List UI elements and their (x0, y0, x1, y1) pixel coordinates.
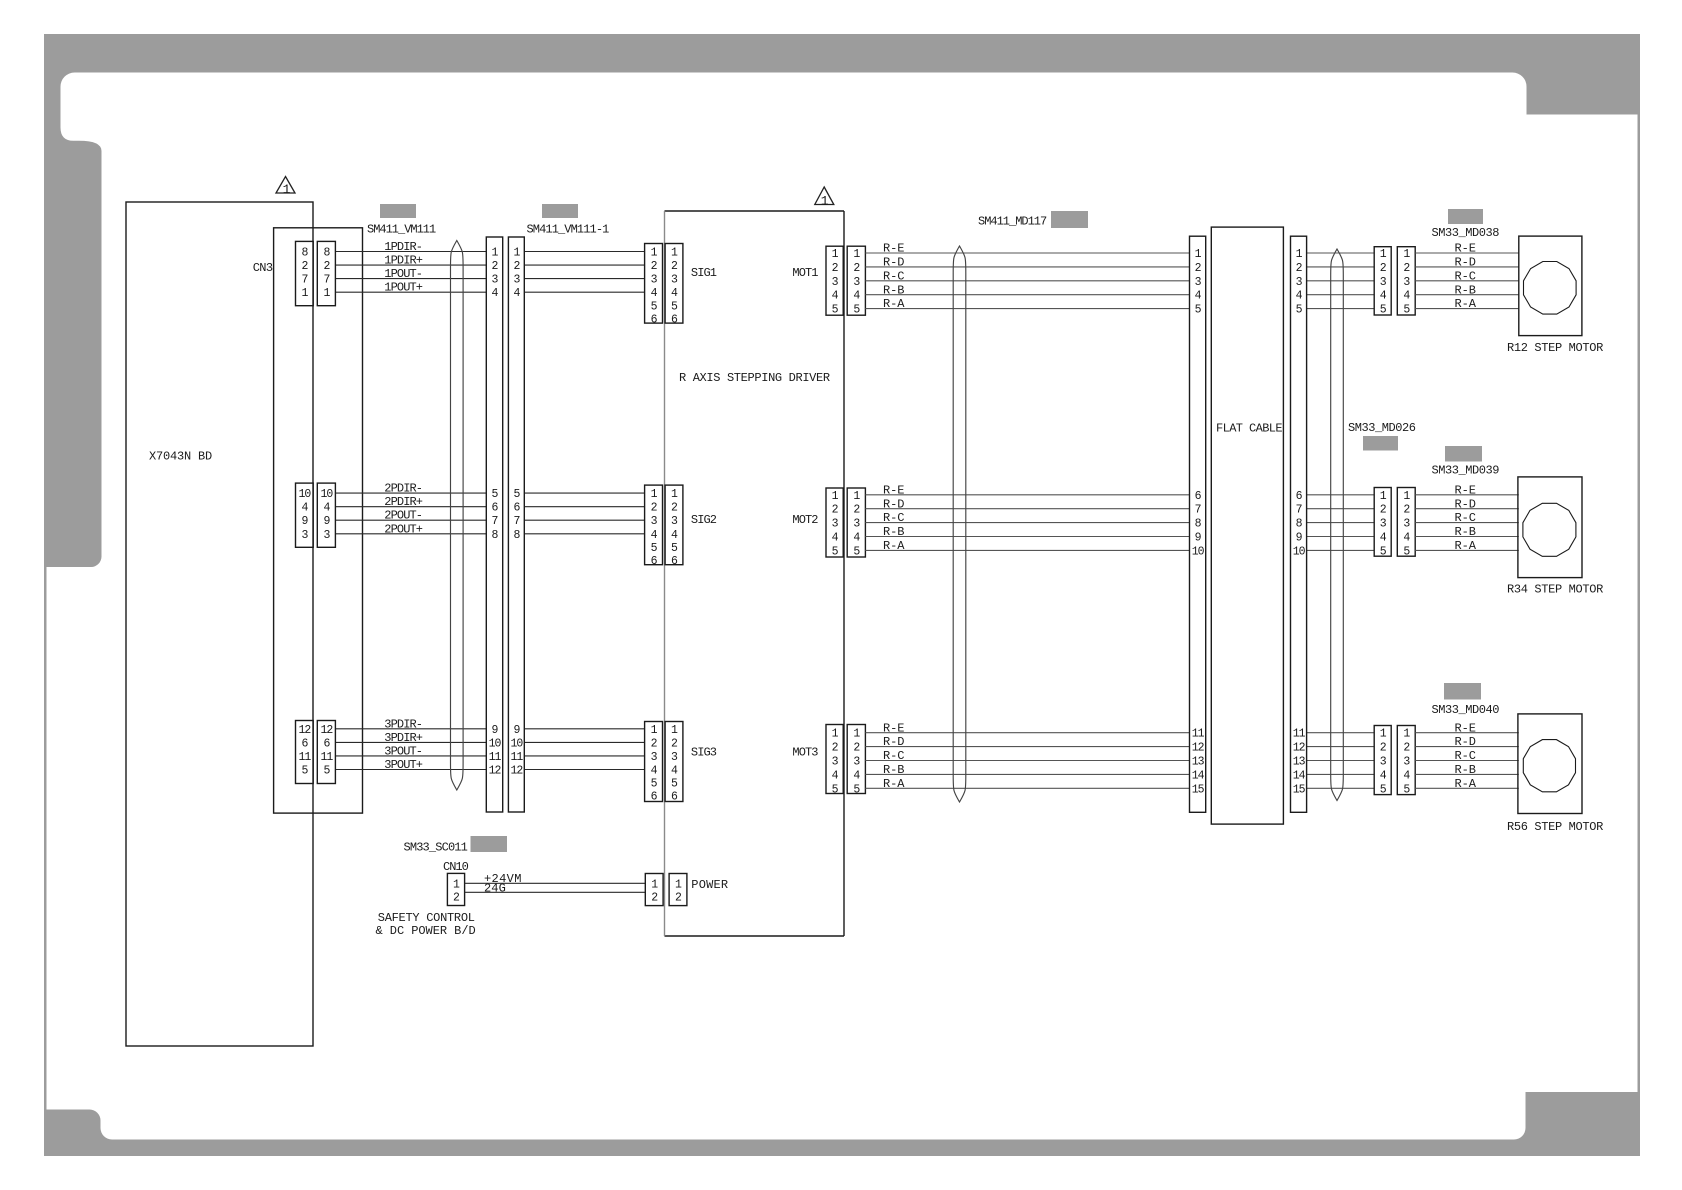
svg-text:5: 5 (651, 778, 658, 791)
svg-text:1PDIR-: 1PDIR- (384, 240, 422, 254)
svg-text:4: 4 (323, 502, 330, 515)
svg-text:R-D: R-D (1455, 497, 1476, 511)
svg-text:5: 5 (671, 300, 678, 313)
svg-text:MOT1: MOT1 (792, 266, 818, 280)
connector SIG2 box A (645, 485, 663, 568)
svg-text:1: 1 (301, 287, 308, 300)
wire R-C to step motor 1 (1415, 269, 1519, 283)
wire R-E to step motor 3 (1415, 721, 1519, 735)
svg-text:9: 9 (492, 724, 499, 737)
svg-text:1: 1 (651, 879, 658, 892)
svg-text:1: 1 (675, 879, 682, 892)
svg-text:1: 1 (513, 247, 520, 260)
svg-text:R-E: R-E (883, 242, 904, 256)
svg-text:5: 5 (832, 783, 839, 796)
svg-text:2: 2 (671, 737, 678, 750)
svg-text:24G: 24G (484, 881, 506, 895)
svg-text:4: 4 (832, 532, 839, 545)
svg-text:3: 3 (671, 515, 678, 528)
svg-text:3: 3 (671, 274, 678, 287)
svg-text:SM411_MD117: SM411_MD117 (978, 215, 1047, 229)
svg-text:7: 7 (323, 274, 329, 287)
label POWER (691, 878, 728, 892)
svg-text:2: 2 (1195, 262, 1202, 275)
svg-text:15: 15 (1192, 783, 1205, 796)
svg-text:11: 11 (510, 751, 523, 764)
svg-text:SIG2: SIG2 (691, 513, 717, 527)
svg-text:R-E: R-E (1455, 721, 1476, 735)
svg-text:8: 8 (513, 529, 520, 542)
svg-text:1: 1 (492, 247, 499, 260)
svg-text:2: 2 (301, 260, 308, 273)
svg-text:3: 3 (651, 274, 658, 287)
svg-text:2: 2 (323, 260, 330, 273)
wire 24G (465, 881, 646, 895)
label SIG1 (691, 266, 717, 280)
svg-text:3POUT+: 3POUT+ (384, 758, 423, 772)
connector SIG1 box A (645, 244, 663, 327)
svg-text:1: 1 (832, 248, 839, 261)
svg-text:8: 8 (1195, 518, 1202, 531)
svg-text:2: 2 (1380, 262, 1387, 275)
connector column flat cable left (1190, 236, 1206, 812)
svg-text:1: 1 (821, 193, 829, 208)
svg-text:10: 10 (298, 488, 311, 501)
svg-text:R-E: R-E (1455, 242, 1476, 256)
svg-text:2: 2 (853, 262, 860, 275)
label SIG2 (691, 513, 717, 527)
svg-text:11: 11 (1192, 728, 1205, 741)
svg-text:3: 3 (651, 515, 658, 528)
svg-text:5: 5 (513, 488, 520, 501)
svg-text:3: 3 (1403, 756, 1410, 769)
svg-text:3: 3 (323, 529, 330, 542)
wire 2POUT- (335, 509, 486, 523)
svg-text:13: 13 (1192, 756, 1205, 769)
svg-text:4: 4 (671, 529, 678, 542)
svg-text:1: 1 (853, 490, 860, 503)
svg-text:2: 2 (832, 504, 839, 517)
svg-text:5: 5 (651, 542, 658, 555)
svg-text:4: 4 (301, 502, 308, 515)
svg-text:6: 6 (492, 502, 499, 515)
svg-text:12: 12 (510, 765, 523, 778)
svg-text:R-D: R-D (1455, 256, 1476, 270)
svg-text:R-B: R-B (1455, 525, 1476, 539)
wire R-B MOT3 to flat cable (865, 763, 1189, 777)
svg-text:1: 1 (832, 490, 839, 503)
svg-text:R-D: R-D (1455, 735, 1476, 749)
svg-text:3: 3 (651, 751, 658, 764)
svg-text:SIG1: SIG1 (691, 266, 717, 280)
connector CN3 pins group 2 box A (296, 483, 314, 547)
svg-text:4: 4 (832, 290, 839, 303)
connector MOT2 box B (847, 488, 865, 558)
svg-text:1: 1 (1403, 728, 1410, 741)
driver box R AXIS STEPPING DRIVER (665, 211, 845, 936)
cable bundle symbol SM411_MD117 (953, 246, 966, 802)
svg-text:X7043N BD: X7043N BD (149, 450, 212, 464)
wire 2PDIR- (335, 482, 486, 496)
svg-text:FLAT CABLE: FLAT CABLE (1216, 422, 1282, 436)
svg-text:4: 4 (1380, 532, 1387, 545)
svg-text:3: 3 (853, 518, 860, 531)
wire R-E MOT1 to flat cable (865, 242, 1189, 256)
wire bundle flat cable to SM33 connector group 3 (1307, 733, 1375, 789)
svg-text:R-C: R-C (883, 749, 904, 763)
svg-text:R-C: R-C (883, 511, 904, 525)
svg-text:R-B: R-B (883, 525, 904, 539)
connector POWER box B (669, 874, 687, 906)
cable label SM33_MD040 (1432, 703, 1500, 717)
svg-text:3PDIR-: 3PDIR- (384, 717, 422, 731)
wire 1POUT- (335, 267, 486, 281)
tag SM411_VM111-1 (542, 204, 578, 218)
svg-text:11: 11 (489, 751, 502, 764)
tag SM33_MD039 (1445, 446, 1482, 462)
svg-text:2PDIR-: 2PDIR- (384, 482, 422, 496)
svg-text:2: 2 (1403, 504, 1410, 517)
svg-text:14: 14 (1192, 769, 1205, 782)
svg-text:R-D: R-D (883, 497, 904, 511)
svg-text:7: 7 (1296, 504, 1302, 517)
svg-text:13: 13 (1293, 756, 1306, 769)
svg-text:3: 3 (853, 276, 860, 289)
svg-text:1: 1 (1380, 248, 1387, 261)
cable label SM411_VM111 (367, 223, 436, 237)
svg-text:2: 2 (671, 502, 678, 515)
svg-text:SM33_MD026: SM33_MD026 (1348, 421, 1416, 435)
connector SM33_MD motor group 1 box B (1397, 247, 1415, 317)
connector MOT3 box B (847, 725, 865, 797)
label MOT1 (792, 266, 818, 280)
svg-text:MOT3: MOT3 (792, 746, 818, 760)
svg-text:POWER: POWER (691, 878, 728, 892)
svg-text:7: 7 (301, 274, 307, 287)
svg-text:R-A: R-A (883, 777, 905, 791)
connector SM33_MD motor group 2 box B (1397, 488, 1415, 559)
svg-text:11: 11 (320, 751, 333, 764)
wire 2POUT+ (335, 522, 486, 536)
svg-text:3: 3 (832, 518, 839, 531)
svg-text:1: 1 (323, 287, 330, 300)
svg-text:3: 3 (832, 276, 839, 289)
svg-text:2POUT-: 2POUT- (384, 509, 422, 523)
svg-text:3: 3 (853, 756, 860, 769)
wire 3POUT- (335, 744, 486, 758)
svg-text:5: 5 (853, 783, 860, 796)
svg-text:R-A: R-A (1455, 539, 1477, 553)
connector MOT3 box A (826, 725, 843, 797)
warning triangle 1 (276, 177, 295, 197)
wire R-D MOT2 to flat cable (865, 497, 1189, 511)
svg-text:1: 1 (1296, 248, 1303, 261)
svg-text:3: 3 (1403, 518, 1410, 531)
cable label SM411_VM111-1 (527, 223, 610, 237)
warning triangle 2 (815, 187, 834, 208)
svg-text:4: 4 (1403, 532, 1410, 545)
svg-text:1: 1 (832, 728, 839, 741)
svg-text:R-A: R-A (1455, 297, 1477, 311)
svg-text:R-A: R-A (1455, 777, 1477, 791)
svg-text:SM33_MD040: SM33_MD040 (1432, 703, 1500, 717)
svg-text:R-B: R-B (883, 763, 904, 777)
connector SIG1 box B (665, 244, 683, 327)
svg-text:12: 12 (1192, 742, 1205, 755)
svg-text:12: 12 (298, 724, 311, 737)
svg-text:14: 14 (1293, 769, 1306, 782)
connector SIG2 box B (665, 485, 683, 568)
svg-text:CN3: CN3 (253, 261, 273, 275)
svg-text:5: 5 (1195, 304, 1202, 317)
svg-text:4: 4 (1296, 290, 1303, 303)
wire bundle flat cable to SM33 connector group 1 (1307, 253, 1375, 309)
svg-text:2: 2 (651, 737, 658, 750)
wire R-C to step motor 2 (1415, 511, 1519, 525)
svg-text:SIG3: SIG3 (691, 746, 717, 760)
svg-text:2: 2 (853, 742, 860, 755)
svg-text:4: 4 (671, 765, 678, 778)
svg-text:1: 1 (1380, 490, 1387, 503)
wire R-E to step motor 2 (1415, 483, 1519, 497)
wire R-B MOT2 to flat cable (865, 525, 1189, 539)
connector SM33_MD motor group 2 box A (1374, 488, 1391, 559)
svg-text:11: 11 (1293, 728, 1306, 741)
svg-text:9: 9 (1195, 532, 1202, 545)
svg-text:6: 6 (301, 737, 308, 750)
wire R-A MOT2 to flat cable (865, 539, 1189, 553)
connector POWER box A (645, 874, 663, 906)
svg-text:4: 4 (1195, 290, 1202, 303)
svg-text:MOT2: MOT2 (792, 513, 818, 527)
svg-text:3POUT-: 3POUT- (384, 744, 422, 758)
wire bundle SM411_VM111-1 group 1 (524, 252, 644, 293)
wire R-C MOT3 to flat cable (865, 749, 1189, 763)
svg-text:R-C: R-C (883, 269, 904, 283)
wire R-A MOT1 to flat cable (865, 297, 1189, 311)
svg-text:SM33_MD038: SM33_MD038 (1432, 226, 1500, 240)
connector CN3 pins group 3 box B (317, 721, 335, 784)
wire bundle SM411_VM111-1 group 3 (524, 729, 644, 770)
svg-text:1PDIR+: 1PDIR+ (384, 254, 423, 268)
svg-text:10: 10 (1293, 545, 1306, 558)
svg-text:5: 5 (671, 542, 678, 555)
connector MOT1 box A (826, 246, 843, 316)
svg-text:7: 7 (492, 515, 498, 528)
svg-text:4: 4 (651, 765, 658, 778)
connector SIG3 box A (645, 722, 663, 804)
svg-text:2: 2 (832, 742, 839, 755)
svg-text:9: 9 (1296, 532, 1303, 545)
svg-text:3: 3 (1380, 756, 1387, 769)
svg-text:3: 3 (492, 274, 499, 287)
wire R-D MOT3 to flat cable (865, 735, 1189, 749)
wire R-B to step motor 3 (1415, 763, 1519, 777)
svg-text:8: 8 (301, 247, 308, 260)
svg-text:2: 2 (1380, 504, 1387, 517)
svg-text:3: 3 (832, 756, 839, 769)
svg-text:SM33_SC011: SM33_SC011 (404, 841, 468, 855)
tag SM33_MD026 (1363, 436, 1398, 451)
svg-text:3: 3 (671, 751, 678, 764)
connector column SM411_VM111 side A (486, 237, 502, 812)
svg-text:2: 2 (651, 260, 658, 273)
svg-text:2: 2 (671, 260, 678, 273)
svg-text:R-D: R-D (883, 256, 904, 270)
svg-text:6: 6 (1296, 490, 1303, 503)
svg-text:2: 2 (513, 260, 520, 273)
wire 1POUT+ (335, 281, 486, 295)
svg-text:2PDIR+: 2PDIR+ (384, 495, 423, 509)
svg-text:5: 5 (1296, 304, 1303, 317)
svg-text:2: 2 (1403, 742, 1410, 755)
connector column SM411_VM111 side B (508, 237, 524, 812)
svg-text:4: 4 (853, 532, 860, 545)
svg-text:4: 4 (853, 769, 860, 782)
svg-text:3: 3 (1380, 518, 1387, 531)
svg-text:R-C: R-C (1455, 511, 1476, 525)
wire R-A to step motor 3 (1415, 777, 1519, 791)
label CN3 (253, 261, 273, 275)
svg-text:1POUT+: 1POUT+ (384, 281, 423, 295)
cable label SM411_MD117 (978, 215, 1047, 229)
svg-text:3: 3 (1403, 276, 1410, 289)
cable label SM33_MD038 (1432, 226, 1500, 240)
svg-text:8: 8 (492, 529, 499, 542)
tag SM33_SC011 (471, 836, 508, 852)
svg-text:4: 4 (853, 290, 860, 303)
svg-text:1POUT-: 1POUT- (384, 267, 422, 281)
connector CN3 pins group 3 box A (296, 721, 314, 784)
svg-text:R-A: R-A (883, 539, 905, 553)
svg-text:5: 5 (301, 765, 308, 778)
connector SM33_MD motor group 1 box A (1374, 247, 1391, 317)
wire bundle SM411_VM111-1 group 2 (524, 493, 644, 534)
wire R-E MOT2 to flat cable (865, 483, 1189, 497)
connector MOT1 box B (847, 246, 865, 316)
svg-text:4: 4 (1380, 290, 1387, 303)
wire 1PDIR- (335, 240, 486, 254)
step motor R56 (1507, 714, 1603, 834)
board X7043N BD (126, 202, 313, 1046)
svg-text:1: 1 (853, 728, 860, 741)
connector CN3 pins group 1 box A (296, 241, 314, 305)
label MOT2 (792, 513, 818, 527)
label SAFETY CONTROL & DC POWER B/D (376, 911, 476, 938)
svg-text:R-E: R-E (1455, 483, 1476, 497)
svg-text:5: 5 (651, 300, 658, 313)
wire bundle flat cable to SM33 connector group 2 (1307, 495, 1375, 551)
wire R-D to step motor 3 (1415, 735, 1519, 749)
connector SM33_MD motor group 3 box A (1374, 726, 1391, 797)
svg-text:R12 STEP MOTOR: R12 STEP MOTOR (1507, 341, 1603, 355)
tag SM411_MD117 (1051, 211, 1088, 228)
svg-text:3: 3 (1296, 276, 1303, 289)
svg-text:R AXIS STEPPING DRIVER: R AXIS STEPPING DRIVER (679, 371, 830, 385)
wire R-C MOT2 to flat cable (865, 511, 1189, 525)
svg-text:1: 1 (283, 182, 291, 197)
svg-text:SM33_MD039: SM33_MD039 (1432, 464, 1500, 478)
svg-text:15: 15 (1293, 783, 1306, 796)
svg-text:1: 1 (1403, 490, 1410, 503)
svg-text:1: 1 (1403, 248, 1410, 261)
svg-text:4: 4 (513, 287, 520, 300)
cable label SM33_MD026 (1348, 421, 1416, 435)
svg-text:1: 1 (853, 248, 860, 261)
svg-text:4: 4 (492, 287, 499, 300)
svg-text:8: 8 (323, 247, 330, 260)
connector group box CN3 (274, 228, 363, 813)
svg-text:1: 1 (671, 724, 678, 737)
svg-text:6: 6 (513, 502, 520, 515)
cable bundle symbol SM411_VM111 (451, 241, 464, 791)
wire R-A to step motor 1 (1415, 297, 1519, 311)
svg-text:R-C: R-C (1455, 749, 1476, 763)
wire R-D to step motor 1 (1415, 256, 1519, 270)
wire R-E MOT3 to flat cable (865, 721, 1189, 735)
wire R-C to step motor 3 (1415, 749, 1519, 763)
svg-text:2: 2 (853, 504, 860, 517)
svg-text:1: 1 (651, 247, 658, 260)
svg-text:R-E: R-E (883, 721, 904, 735)
wire 3PDIR- (335, 717, 486, 731)
step motor R12 (1507, 236, 1603, 355)
svg-text:3: 3 (1380, 276, 1387, 289)
connector MOT2 box A (826, 488, 843, 558)
svg-text:5: 5 (323, 765, 330, 778)
svg-text:5: 5 (492, 488, 499, 501)
cable label SM33_SC011 (404, 841, 468, 855)
svg-text:SAFETY CONTROL: SAFETY CONTROL (378, 911, 475, 925)
svg-text:1: 1 (671, 247, 678, 260)
wire 2PDIR+ (335, 495, 486, 509)
svg-text:2POUT+: 2POUT+ (384, 522, 423, 536)
svg-text:4: 4 (832, 769, 839, 782)
svg-text:10: 10 (510, 737, 523, 750)
flat cable box (1211, 227, 1283, 824)
wire R-A MOT3 to flat cable (865, 777, 1189, 791)
svg-text:R-E: R-E (883, 483, 904, 497)
svg-text:R-C: R-C (1455, 269, 1476, 283)
svg-text:4: 4 (1403, 769, 1410, 782)
connector SIG3 box B (665, 722, 683, 804)
connector SM33_MD motor group 3 box B (1397, 726, 1415, 797)
wire R-B MOT1 to flat cable (865, 283, 1189, 297)
svg-text:R-D: R-D (883, 735, 904, 749)
svg-text:2: 2 (1380, 742, 1387, 755)
wire 3PDIR+ (335, 731, 486, 745)
svg-text:5: 5 (671, 778, 678, 791)
svg-text:2: 2 (492, 260, 499, 273)
wire R-B to step motor 1 (1415, 283, 1519, 297)
wire R-C MOT1 to flat cable (865, 269, 1189, 283)
svg-text:1: 1 (1380, 728, 1387, 741)
wire R-D to step motor 2 (1415, 497, 1519, 511)
svg-text:2: 2 (675, 892, 682, 905)
wire +24VM (465, 872, 646, 886)
svg-text:3: 3 (301, 529, 308, 542)
step motor R34 (1507, 477, 1603, 597)
svg-text:2: 2 (453, 892, 460, 905)
svg-text:6: 6 (323, 737, 330, 750)
svg-text:11: 11 (298, 751, 311, 764)
svg-text:10: 10 (1192, 545, 1205, 558)
tag SM33_MD040 (1444, 683, 1481, 700)
svg-text:4: 4 (1403, 290, 1410, 303)
connector column flat cable right (1291, 236, 1307, 812)
wire R-A to step motor 2 (1415, 539, 1519, 553)
label SIG3 (691, 746, 717, 760)
